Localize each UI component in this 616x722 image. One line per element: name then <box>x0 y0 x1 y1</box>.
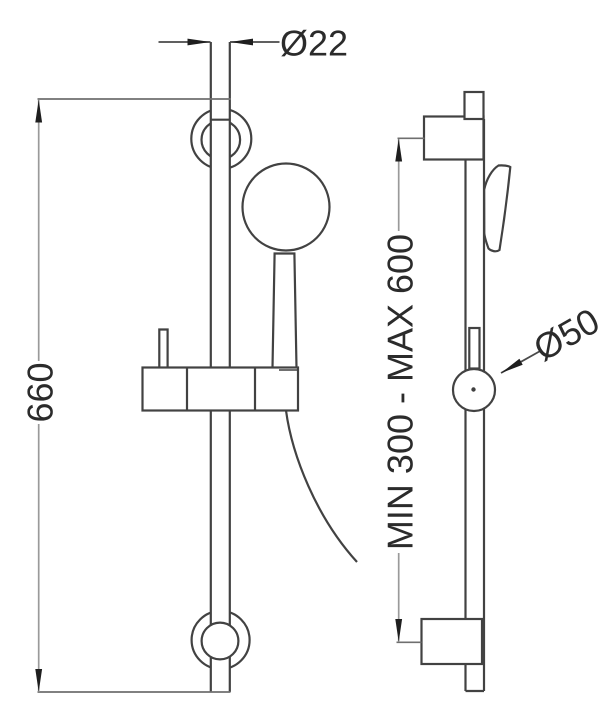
svg-text:Ø22: Ø22 <box>280 22 348 63</box>
slider block left divider <box>186 368 188 411</box>
slider block right divider <box>254 368 256 411</box>
top wall mount inner circle <box>202 121 241 160</box>
hose outlet joint line <box>279 369 298 371</box>
Ø22 leader line left <box>159 41 211 43</box>
660 dimension line upper segment <box>38 100 40 362</box>
side rail bottom cap <box>466 690 485 692</box>
MIN/MAX dimension line lower segment <box>398 553 400 642</box>
svg-text:660: 660 <box>20 362 61 422</box>
MIN/MAX dimension line upper segment <box>398 139 400 231</box>
Ø50 arrow pointing lower-left <box>501 359 523 373</box>
slider knob circle (side) <box>453 369 495 411</box>
rail tube right edge <box>229 42 231 692</box>
slider pin (side) <box>469 328 479 369</box>
shower head side blade <box>484 165 510 251</box>
MIN/MAX arrow up <box>395 139 402 162</box>
top wall mount outer circle <box>191 109 251 169</box>
top wall bracket (side) <box>424 117 484 160</box>
tube collar joint line below top mount top <box>211 119 230 121</box>
Ø22 arrow pointing right <box>188 39 211 46</box>
bottom wall mount outer circle <box>192 611 250 669</box>
bottom wall mount inner circle (in front of tube) <box>202 623 239 660</box>
Ø22 arrow pointing left <box>230 39 253 46</box>
660 arrow down <box>35 669 42 692</box>
Ø22 leader line right <box>230 41 280 43</box>
slider pin knob <box>159 330 167 368</box>
extension line top left (660) <box>38 98 232 100</box>
hand shower handle (tapered) <box>273 254 297 368</box>
side rail right edge <box>483 119 485 691</box>
side rail bar body <box>466 119 485 691</box>
bottom wall bracket (side) <box>422 619 483 664</box>
extension line bottom left (660) <box>38 691 231 693</box>
660 dimension line lower segment <box>38 424 40 692</box>
Ø50 leader line <box>501 350 542 373</box>
shower head face circle <box>243 164 330 251</box>
shower hose curve <box>286 411 357 563</box>
svg-text:MIN 300 - MAX 600: MIN 300 - MAX 600 <box>380 234 421 550</box>
rail tube body (front view) <box>211 42 230 692</box>
side rail left edge <box>464 119 466 691</box>
extension line bottom right (MIN/MAX) <box>397 641 422 643</box>
rail top end (side) <box>465 92 484 119</box>
rail tube left edge <box>210 42 212 692</box>
MIN/MAX arrow down <box>395 619 402 642</box>
660 arrow up <box>35 100 42 123</box>
slider knob center dot <box>471 387 475 391</box>
extension line top right (MIN/MAX) <box>398 137 425 139</box>
slider block body <box>143 368 299 411</box>
